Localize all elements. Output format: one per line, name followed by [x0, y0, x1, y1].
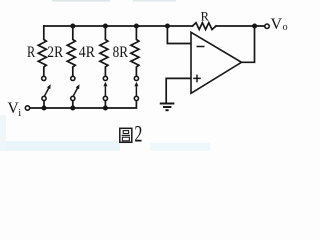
svg-text:4R: 4R [79, 44, 96, 61]
svg-text:8R: 8R [113, 44, 129, 61]
svg-text:i: i [18, 108, 21, 119]
svg-text:R: R [201, 9, 210, 23]
svg-text:R: R [27, 44, 36, 61]
svg-text:2R: 2R [47, 44, 63, 61]
svg-text:V: V [271, 16, 283, 33]
svg-text:2: 2 [134, 122, 142, 147]
svg-text:o: o [283, 22, 288, 33]
